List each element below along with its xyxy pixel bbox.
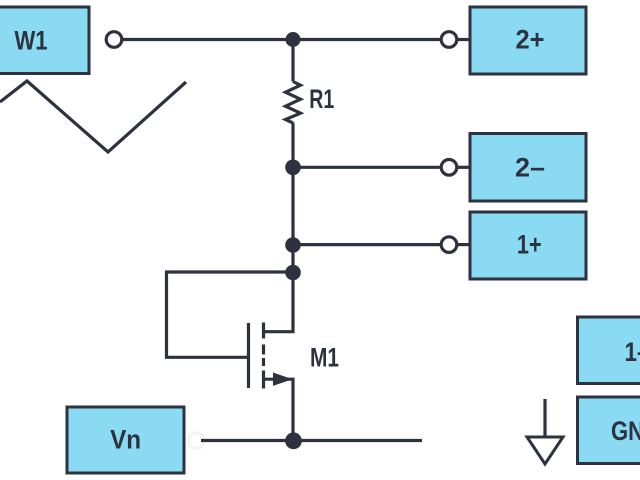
svg-text:Vn: Vn	[110, 424, 141, 454]
svg-text:M1: M1	[310, 343, 339, 373]
svg-text:1+: 1+	[517, 230, 542, 260]
svg-text:W1: W1	[15, 26, 48, 56]
svg-text:R1: R1	[309, 84, 334, 114]
svg-text:2–: 2–	[515, 153, 545, 183]
svg-text:GND: GND	[611, 416, 640, 446]
svg-text:2+: 2+	[516, 25, 545, 55]
svg-text:1–: 1–	[625, 337, 640, 367]
